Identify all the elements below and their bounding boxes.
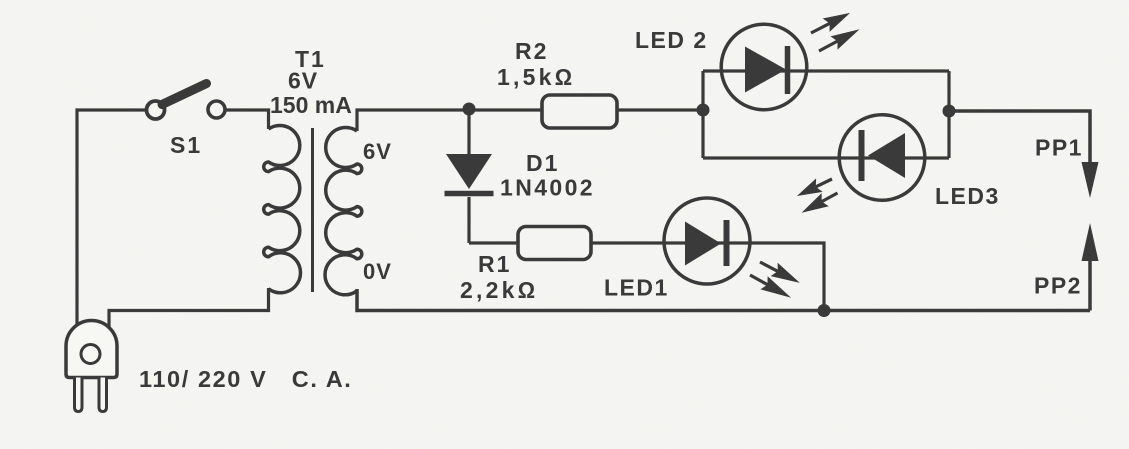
resistor R2 [542,95,617,128]
PP2 arrow [1082,223,1099,261]
wire LED3 branch [703,156,949,159]
wire LED2 branch [703,69,949,72]
wire switch to transformer primary [225,110,269,129]
switch S1 [147,84,226,120]
LED D1 (LED1) [663,198,751,284]
transformer T1 secondary winding [325,128,362,295]
svg-text:LED1: LED1 [604,275,669,301]
wire primary bottom to plug [109,288,269,328]
wire right node to PP1 [955,111,1090,168]
svg-text:6V: 6V [363,139,392,164]
svg-text:150 mA: 150 mA [270,92,352,118]
svg-text:R1: R1 [478,251,511,277]
svg-text:2,2kΩ: 2,2kΩ [460,277,538,303]
svg-text:S1: S1 [170,132,202,158]
svg-text:R2: R2 [515,38,548,64]
LED D3 (LED3) [839,115,925,201]
svg-text:LED 2: LED 2 [635,27,708,53]
wire secondary bottom rail [357,289,1090,311]
svg-text:1N4002: 1N4002 [500,175,595,201]
PP1 arrow [1082,162,1099,198]
wire left vertical of LED pair [701,71,704,158]
LED2 light arrows [808,6,864,57]
svg-text:0V: 0V [363,259,392,284]
LED D2 (LED 2) [721,24,807,110]
transformer T1 primary winding [264,126,301,293]
svg-text:LED3: LED3 [935,183,1000,209]
resistor R1 [518,227,591,260]
svg-text:PP2: PP2 [1034,273,1082,299]
node junction at D1 [463,103,476,116]
wire LED1 to bottom rail [751,243,824,311]
LED3 light arrows [794,172,841,219]
wire top-left from switch to corner and down to plug [77,110,146,326]
svg-text:D1: D1 [526,150,559,176]
wire D1 to R1 [469,241,518,244]
wire right vertical of LED pair [947,71,950,158]
transformer core [311,128,314,292]
svg-text:PP1: PP1 [1035,135,1083,161]
wire R2 to node [617,108,703,111]
node right of LED pair [943,105,956,118]
mains plug body [66,321,117,412]
LED1 light arrows [746,255,803,304]
node on bottom rail [818,304,831,317]
svg-text:110/ 220 V C. A.: 110/ 220 V C. A. [139,366,352,392]
wire R1 to LED1 [591,241,663,244]
diode D1 [445,109,494,243]
wire PP2 [1088,258,1092,311]
node left of LED pair [697,104,710,117]
svg-text:6V: 6V [288,68,318,94]
wire secondary top [357,110,542,131]
svg-text:1,5kΩ: 1,5kΩ [497,64,575,90]
